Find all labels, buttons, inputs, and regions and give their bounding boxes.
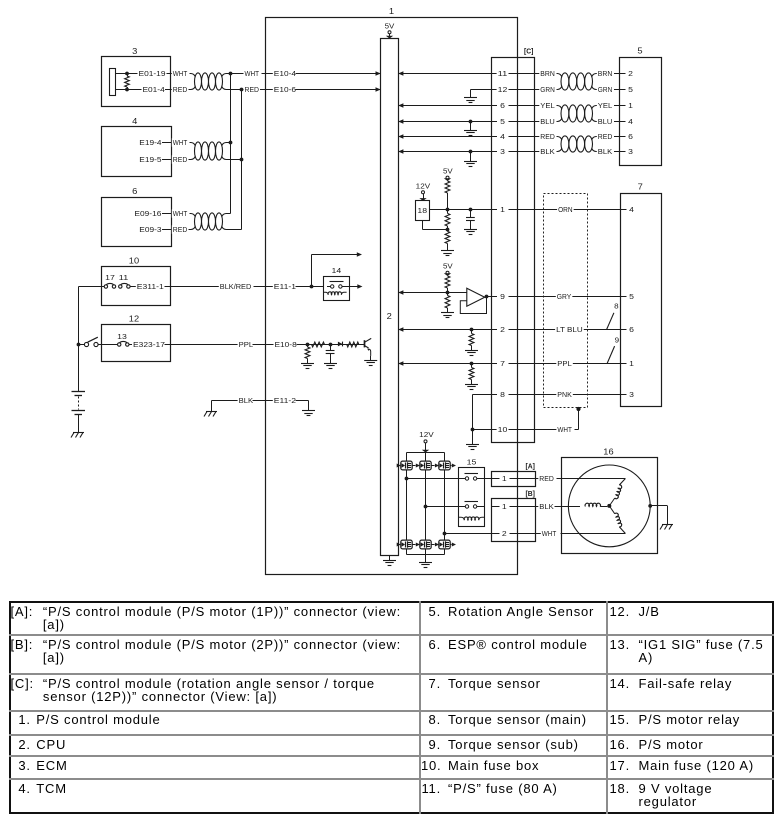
wire CPU to C pin 7 <box>398 361 491 366</box>
mosfet low-side Q7 <box>439 540 450 549</box>
wire E311-1 to BLK/RED <box>165 282 253 291</box>
svg-text:BRN: BRN <box>598 69 613 78</box>
wire LT BLU to sensor pin 6 <box>535 325 635 334</box>
junction block J/B box 12 <box>102 315 171 362</box>
CPU bar 2 <box>381 39 399 556</box>
trunk wire RED <box>241 90 243 230</box>
5V supply for op-amp divider <box>443 262 453 277</box>
ground lead C pin 12 <box>464 90 491 103</box>
wire YEL to sensor pin 1 <box>596 101 634 110</box>
svg-text:12V: 12V <box>416 182 431 191</box>
connector C pin 8 <box>491 390 535 399</box>
svg-text:3: 3 <box>500 147 505 156</box>
pin E19-4 <box>138 138 162 147</box>
svg-text:RED: RED <box>539 474 554 483</box>
mosfet high-side Q2 <box>401 461 412 470</box>
junction at capacitor <box>329 343 333 347</box>
connector C pin 3 <box>491 147 535 156</box>
twisted pair block3 <box>189 73 227 90</box>
fuse 17 main fuse 120A <box>104 283 116 288</box>
connector bar in ECM <box>110 69 116 96</box>
svg-text:GRY: GRY <box>557 292 572 301</box>
junction WHT <box>229 72 233 76</box>
fuse 13 IG1 SIG fuse <box>118 341 130 346</box>
wire ORN to sensor pin 4 <box>535 205 635 214</box>
wire pin 8 to pin 10 link <box>473 395 492 430</box>
pulldown resistor pin 2 <box>465 328 478 356</box>
twisted pair block4 <box>189 142 227 160</box>
svg-text:WHT: WHT <box>557 425 572 434</box>
pulldown resistor pin 7 <box>465 362 478 390</box>
svg-text:E09-3: E09-3 <box>139 225 161 234</box>
wire label RED block3 <box>172 85 189 94</box>
wire PPL to E10-8 <box>253 340 298 349</box>
svg-text:GRN: GRN <box>540 85 555 94</box>
connector C pin 4 <box>491 132 535 141</box>
svg-text:YEL: YEL <box>598 101 613 110</box>
svg-text:RED: RED <box>598 132 613 141</box>
wire WHT to E10-4 <box>231 69 381 78</box>
fuse labels 17 11 <box>105 273 128 282</box>
svg-text:4: 4 <box>132 117 138 126</box>
svg-text:RED: RED <box>540 132 555 141</box>
svg-text:2: 2 <box>387 312 393 321</box>
svg-text:YEL: YEL <box>540 101 555 110</box>
fail-safe relay 14 box <box>324 266 350 301</box>
rotation angle sensor box 5 <box>620 47 662 166</box>
mosfet low-side Q6 <box>420 540 431 549</box>
connector A box <box>492 462 536 487</box>
svg-text:11: 11 <box>119 273 129 282</box>
wire ECM pins <box>115 74 142 90</box>
wires TCM to WHT/RED labels <box>162 143 173 160</box>
wire to WHT label <box>165 74 173 90</box>
bridge top rail <box>407 453 445 462</box>
wire BLK <box>212 396 255 405</box>
9V voltage regulator box 18 <box>416 201 430 221</box>
svg-text:WHT: WHT <box>245 69 260 78</box>
regulator bottom wire <box>423 221 448 230</box>
svg-text:5: 5 <box>637 47 643 56</box>
svg-text:13: 13 <box>117 332 127 341</box>
trunk wire WHT <box>230 74 232 214</box>
capacitor ground at pin 3 <box>464 150 477 167</box>
op-amp U1 <box>467 288 485 306</box>
svg-text:RED: RED <box>173 225 188 234</box>
wire WHT shield drain <box>535 407 581 434</box>
twisted pair YEL/BLU <box>558 105 597 122</box>
relay 15 contact A <box>458 474 485 481</box>
resistor to ground on PPL line <box>301 345 314 369</box>
wire node to C pin 1 <box>448 209 492 211</box>
svg-text:E19-4: E19-4 <box>139 138 161 147</box>
connector C box <box>492 47 535 443</box>
svg-text:E19-5: E19-5 <box>139 155 161 164</box>
pin E01-19 <box>138 69 167 78</box>
battery ground <box>71 429 84 438</box>
connector C pin 10 <box>491 425 535 434</box>
resistor in ECM <box>125 72 130 92</box>
wire CPU to C pin 11 <box>398 71 491 76</box>
svg-text:E311-1: E311-1 <box>137 282 164 291</box>
svg-text:7: 7 <box>638 183 644 192</box>
wires ESP to labels <box>162 214 173 230</box>
phase column B <box>424 471 428 540</box>
motor winding left <box>585 503 607 506</box>
connector C pin 5 <box>491 117 535 126</box>
wire RED to sensor pin 6 <box>596 132 634 141</box>
svg-text:1: 1 <box>500 205 505 214</box>
svg-text:18: 18 <box>417 206 427 215</box>
connector B pin 2 <box>491 529 535 538</box>
motor case ground <box>648 504 673 530</box>
pin E01-4 <box>142 85 166 94</box>
5V supply for divider <box>443 167 453 182</box>
svg-text:9: 9 <box>615 338 620 345</box>
svg-text:LT BLU: LT BLU <box>556 325 583 334</box>
svg-text:2: 2 <box>628 69 633 78</box>
svg-text:10: 10 <box>498 425 508 434</box>
svg-text:E01-19: E01-19 <box>139 69 166 78</box>
svg-text:BLU: BLU <box>540 117 555 126</box>
svg-text:WHT: WHT <box>173 69 188 78</box>
wire phase B to relay <box>426 506 459 508</box>
wire YEL from C <box>535 101 558 110</box>
wire BLK to E11-2 <box>253 396 298 405</box>
op-amp feedback loop <box>460 297 486 313</box>
svg-text:11: 11 <box>498 69 508 78</box>
svg-text:8: 8 <box>500 390 505 399</box>
wire BLK from C <box>535 147 558 156</box>
relay 14 coil <box>323 292 347 295</box>
svg-text:9: 9 <box>500 292 505 301</box>
svg-text:PNK: PNK <box>557 390 572 399</box>
svg-text:BLK: BLK <box>540 147 555 156</box>
svg-text:E323-17: E323-17 <box>133 340 165 349</box>
svg-text:BLK: BLK <box>539 502 554 511</box>
ECM box 3 <box>102 47 171 107</box>
svg-text:5: 5 <box>628 85 633 94</box>
svg-text:E10-6: E10-6 <box>274 85 296 94</box>
motor circle <box>568 465 650 547</box>
capacitor ground at pin 5 <box>464 120 477 136</box>
wire GRY to sensor pin 5 <box>535 292 635 301</box>
relay 15 contact B <box>458 502 485 509</box>
wire RED to E10-6 <box>242 85 381 94</box>
phase column A <box>405 471 409 540</box>
op-amp divider resistor top <box>445 276 450 293</box>
mosfet high-side Q3 <box>420 461 431 470</box>
svg-text:8: 8 <box>614 304 619 311</box>
transistor Q1 <box>365 338 372 356</box>
12V supply for motor bridge <box>419 430 434 453</box>
P/S control module box 1 <box>266 7 518 575</box>
svg-text:E01-4: E01-4 <box>143 85 165 94</box>
connector C pin 9 <box>491 292 535 301</box>
svg-text:6: 6 <box>629 325 634 334</box>
svg-text:BLK: BLK <box>598 147 613 156</box>
svg-text:4: 4 <box>500 132 505 141</box>
svg-text:15: 15 <box>467 458 477 467</box>
svg-text:7: 7 <box>500 359 505 368</box>
wire GRN from C <box>535 85 558 94</box>
motor star point <box>607 504 611 508</box>
wire into fuse box <box>79 286 105 288</box>
svg-text:PPL: PPL <box>557 359 572 368</box>
ESP control module box 6 <box>102 187 172 247</box>
wire PPL to sensor pin 1 <box>535 359 635 368</box>
divider resistor R-c <box>441 230 454 256</box>
svg-text:1: 1 <box>502 474 507 483</box>
wire coil4 to trunks <box>226 141 243 162</box>
motor winding upper <box>609 479 625 506</box>
svg-text:[C]: [C] <box>524 47 534 56</box>
svg-text:17: 17 <box>105 273 115 282</box>
mosfet low-side Q5 <box>401 540 412 549</box>
battery <box>72 392 86 429</box>
svg-text:1: 1 <box>628 101 633 110</box>
wire label RED block4 <box>172 155 189 164</box>
wire BLU from C <box>535 117 558 126</box>
svg-text:6: 6 <box>628 132 633 141</box>
gate chain top <box>397 464 456 468</box>
svg-text:3: 3 <box>132 47 138 56</box>
wire to E323-17 <box>129 340 166 349</box>
main fuse box 10 <box>102 257 171 306</box>
wire BLK to motor <box>535 502 580 511</box>
wire BRN to sensor pin 2 <box>596 69 634 78</box>
svg-text:E11-1: E11-1 <box>274 282 296 291</box>
divider resistor R-b <box>445 210 450 232</box>
svg-text:WHT: WHT <box>173 209 188 218</box>
svg-text:[B]: [B] <box>526 489 536 498</box>
svg-text:BLK/RED: BLK/RED <box>220 282 252 291</box>
svg-text:3: 3 <box>629 390 634 399</box>
connector A pin 1 <box>485 474 535 483</box>
svg-text:RED: RED <box>245 85 260 94</box>
bridge ground <box>419 555 432 568</box>
torque sensor sub slash 9 <box>607 338 619 364</box>
wire CPU to op-amp input <box>398 290 467 295</box>
fuse 13 label <box>117 332 127 341</box>
connector C pin 6 <box>491 101 535 110</box>
svg-text:1: 1 <box>389 7 395 16</box>
wire to fuse 13 <box>102 344 118 346</box>
P/S motor box 16 <box>562 448 658 554</box>
svg-text:1: 1 <box>629 359 634 368</box>
connector C pin 7 <box>491 359 535 368</box>
wire E323-17 to PPL <box>165 340 255 349</box>
svg-text:BRN: BRN <box>540 69 555 78</box>
pin E09-3 <box>138 225 162 234</box>
capacitor at pin 1 <box>464 208 477 235</box>
svg-text:ORN: ORN <box>558 205 573 214</box>
svg-text:E11-2: E11-2 <box>274 396 296 405</box>
wire E10-8 into module <box>297 344 365 346</box>
wire label WHT block6 <box>172 209 189 218</box>
wire BLU to sensor pin 4 <box>596 117 634 126</box>
gate chain bottom <box>397 543 456 547</box>
wire to E311-1 <box>130 282 165 291</box>
connector C pin 1 <box>491 205 535 214</box>
ground at pin 10 link <box>466 430 479 450</box>
svg-text:2: 2 <box>500 325 505 334</box>
wire E11-2 to ground <box>296 401 316 416</box>
wire RED from C <box>535 132 558 141</box>
svg-text:WHT: WHT <box>542 529 557 538</box>
bypass wire up from E11-1 <box>312 252 363 286</box>
wire CPU to C pin 2 <box>398 327 491 332</box>
svg-text:10: 10 <box>129 257 140 266</box>
wire WHT to motor <box>535 529 625 538</box>
pin E19-5 <box>138 155 162 164</box>
mosfet high-side Q4 <box>439 461 450 470</box>
svg-text:2: 2 <box>502 529 507 538</box>
svg-text:E10-8: E10-8 <box>275 340 297 349</box>
wire CPU to C pin 3 <box>398 149 491 154</box>
torque sensor main slash 8 <box>607 304 619 330</box>
svg-text:12: 12 <box>129 315 140 324</box>
svg-text:3: 3 <box>628 147 633 156</box>
fuse 11 P/S fuse 80A <box>119 283 130 288</box>
regulator output wire <box>429 209 447 211</box>
5V supply at CPU top <box>385 22 395 39</box>
svg-text:12V: 12V <box>419 430 434 439</box>
pin E09-16 <box>133 209 162 218</box>
bridge bottom rail <box>407 549 445 554</box>
connector C pin 12 <box>491 85 535 94</box>
svg-text:WHT: WHT <box>173 138 188 147</box>
divider resistor R-a <box>445 181 450 210</box>
series resistor PPL <box>312 342 325 347</box>
motor winding lower <box>609 506 625 534</box>
svg-text:E09-16: E09-16 <box>134 209 161 218</box>
ignition switch <box>79 337 102 346</box>
phase column C <box>443 471 447 540</box>
connector B box <box>492 489 536 542</box>
svg-text:RED: RED <box>173 155 188 164</box>
junction at ignition switch <box>77 343 81 347</box>
wire GRN to sensor pin 5 <box>596 85 634 94</box>
svg-text:RED: RED <box>173 85 188 94</box>
ground lead left of BLK <box>204 401 217 417</box>
wire PNK to sensor pin 3 <box>535 390 635 399</box>
wire label RED block6 <box>172 225 189 234</box>
svg-text:16: 16 <box>603 448 614 457</box>
junction at E11-1 <box>310 285 314 289</box>
svg-text:PPL: PPL <box>239 340 254 349</box>
connector C pin 2 <box>491 325 535 334</box>
svg-text:4: 4 <box>629 205 634 214</box>
svg-text:4: 4 <box>628 117 633 126</box>
svg-text:12: 12 <box>498 85 508 94</box>
svg-text:BLU: BLU <box>598 117 613 126</box>
legend table <box>9 601 774 814</box>
junction RED <box>240 88 244 92</box>
wire BLK to sensor pin 3 <box>596 147 634 156</box>
svg-text:5: 5 <box>629 292 634 301</box>
transistor emitter ground <box>364 356 377 366</box>
connector B pin 1 <box>491 502 535 511</box>
torque sensor box 7 <box>621 183 662 407</box>
series resistor 2 PPL <box>347 342 359 347</box>
capacitor to ground PPL <box>324 345 337 369</box>
wire RED to motor <box>535 474 625 483</box>
svg-text:[A]: [A] <box>526 462 536 471</box>
wire BRN from C <box>535 69 558 78</box>
wire E11-1 to relay <box>296 286 324 288</box>
junction pin1 node <box>446 208 450 212</box>
svg-text:6: 6 <box>132 187 138 196</box>
svg-text:5V: 5V <box>443 167 453 176</box>
diode on PPL line <box>338 342 343 347</box>
12V supply for regulator <box>416 182 431 201</box>
junction pin 10 <box>471 428 491 432</box>
ground under CPU bar <box>383 556 396 566</box>
wire label WHT block4 <box>172 138 189 147</box>
svg-text:1: 1 <box>502 502 507 511</box>
svg-text:GRN: GRN <box>598 85 613 94</box>
junction at first resistor <box>306 343 310 347</box>
svg-text:BLK: BLK <box>239 396 254 405</box>
op-amp output junction <box>485 295 491 299</box>
wire label WHT block3 <box>172 69 189 78</box>
svg-text:14: 14 <box>332 266 342 275</box>
relay 14 output arrow <box>350 284 363 289</box>
svg-text:5V: 5V <box>385 22 395 31</box>
svg-text:6: 6 <box>500 101 505 110</box>
relay 14 contacts <box>327 282 350 289</box>
wire phase C to connector B pin2 <box>445 533 492 535</box>
wire CPU to C pin 5 <box>398 119 491 124</box>
wire CPU to C pin 6 <box>398 103 491 108</box>
TCM box 4 <box>102 117 172 177</box>
wire phase A to relay <box>407 478 459 480</box>
twisted pair BRN/GRN <box>558 73 597 90</box>
shield dashed box <box>544 194 588 408</box>
left vertical supply wire <box>78 287 80 392</box>
wire CPU to C pin 4 <box>398 134 491 139</box>
relay 15 coil <box>458 517 485 520</box>
svg-text:5V: 5V <box>443 262 453 271</box>
svg-text:5: 5 <box>500 117 505 126</box>
wire coil3 to junctions <box>226 74 242 90</box>
svg-text:E10-4: E10-4 <box>274 69 296 78</box>
twisted pair block6 <box>189 213 227 230</box>
connector C pin 11 <box>491 69 535 78</box>
wire BLK/RED to E11-1 <box>254 282 298 291</box>
wire coil6 to trunks <box>226 214 242 230</box>
op-amp divider resistor bottom <box>441 293 454 318</box>
twisted pair RED/BLK <box>558 136 597 152</box>
P/S motor relay 15 box <box>459 458 485 527</box>
